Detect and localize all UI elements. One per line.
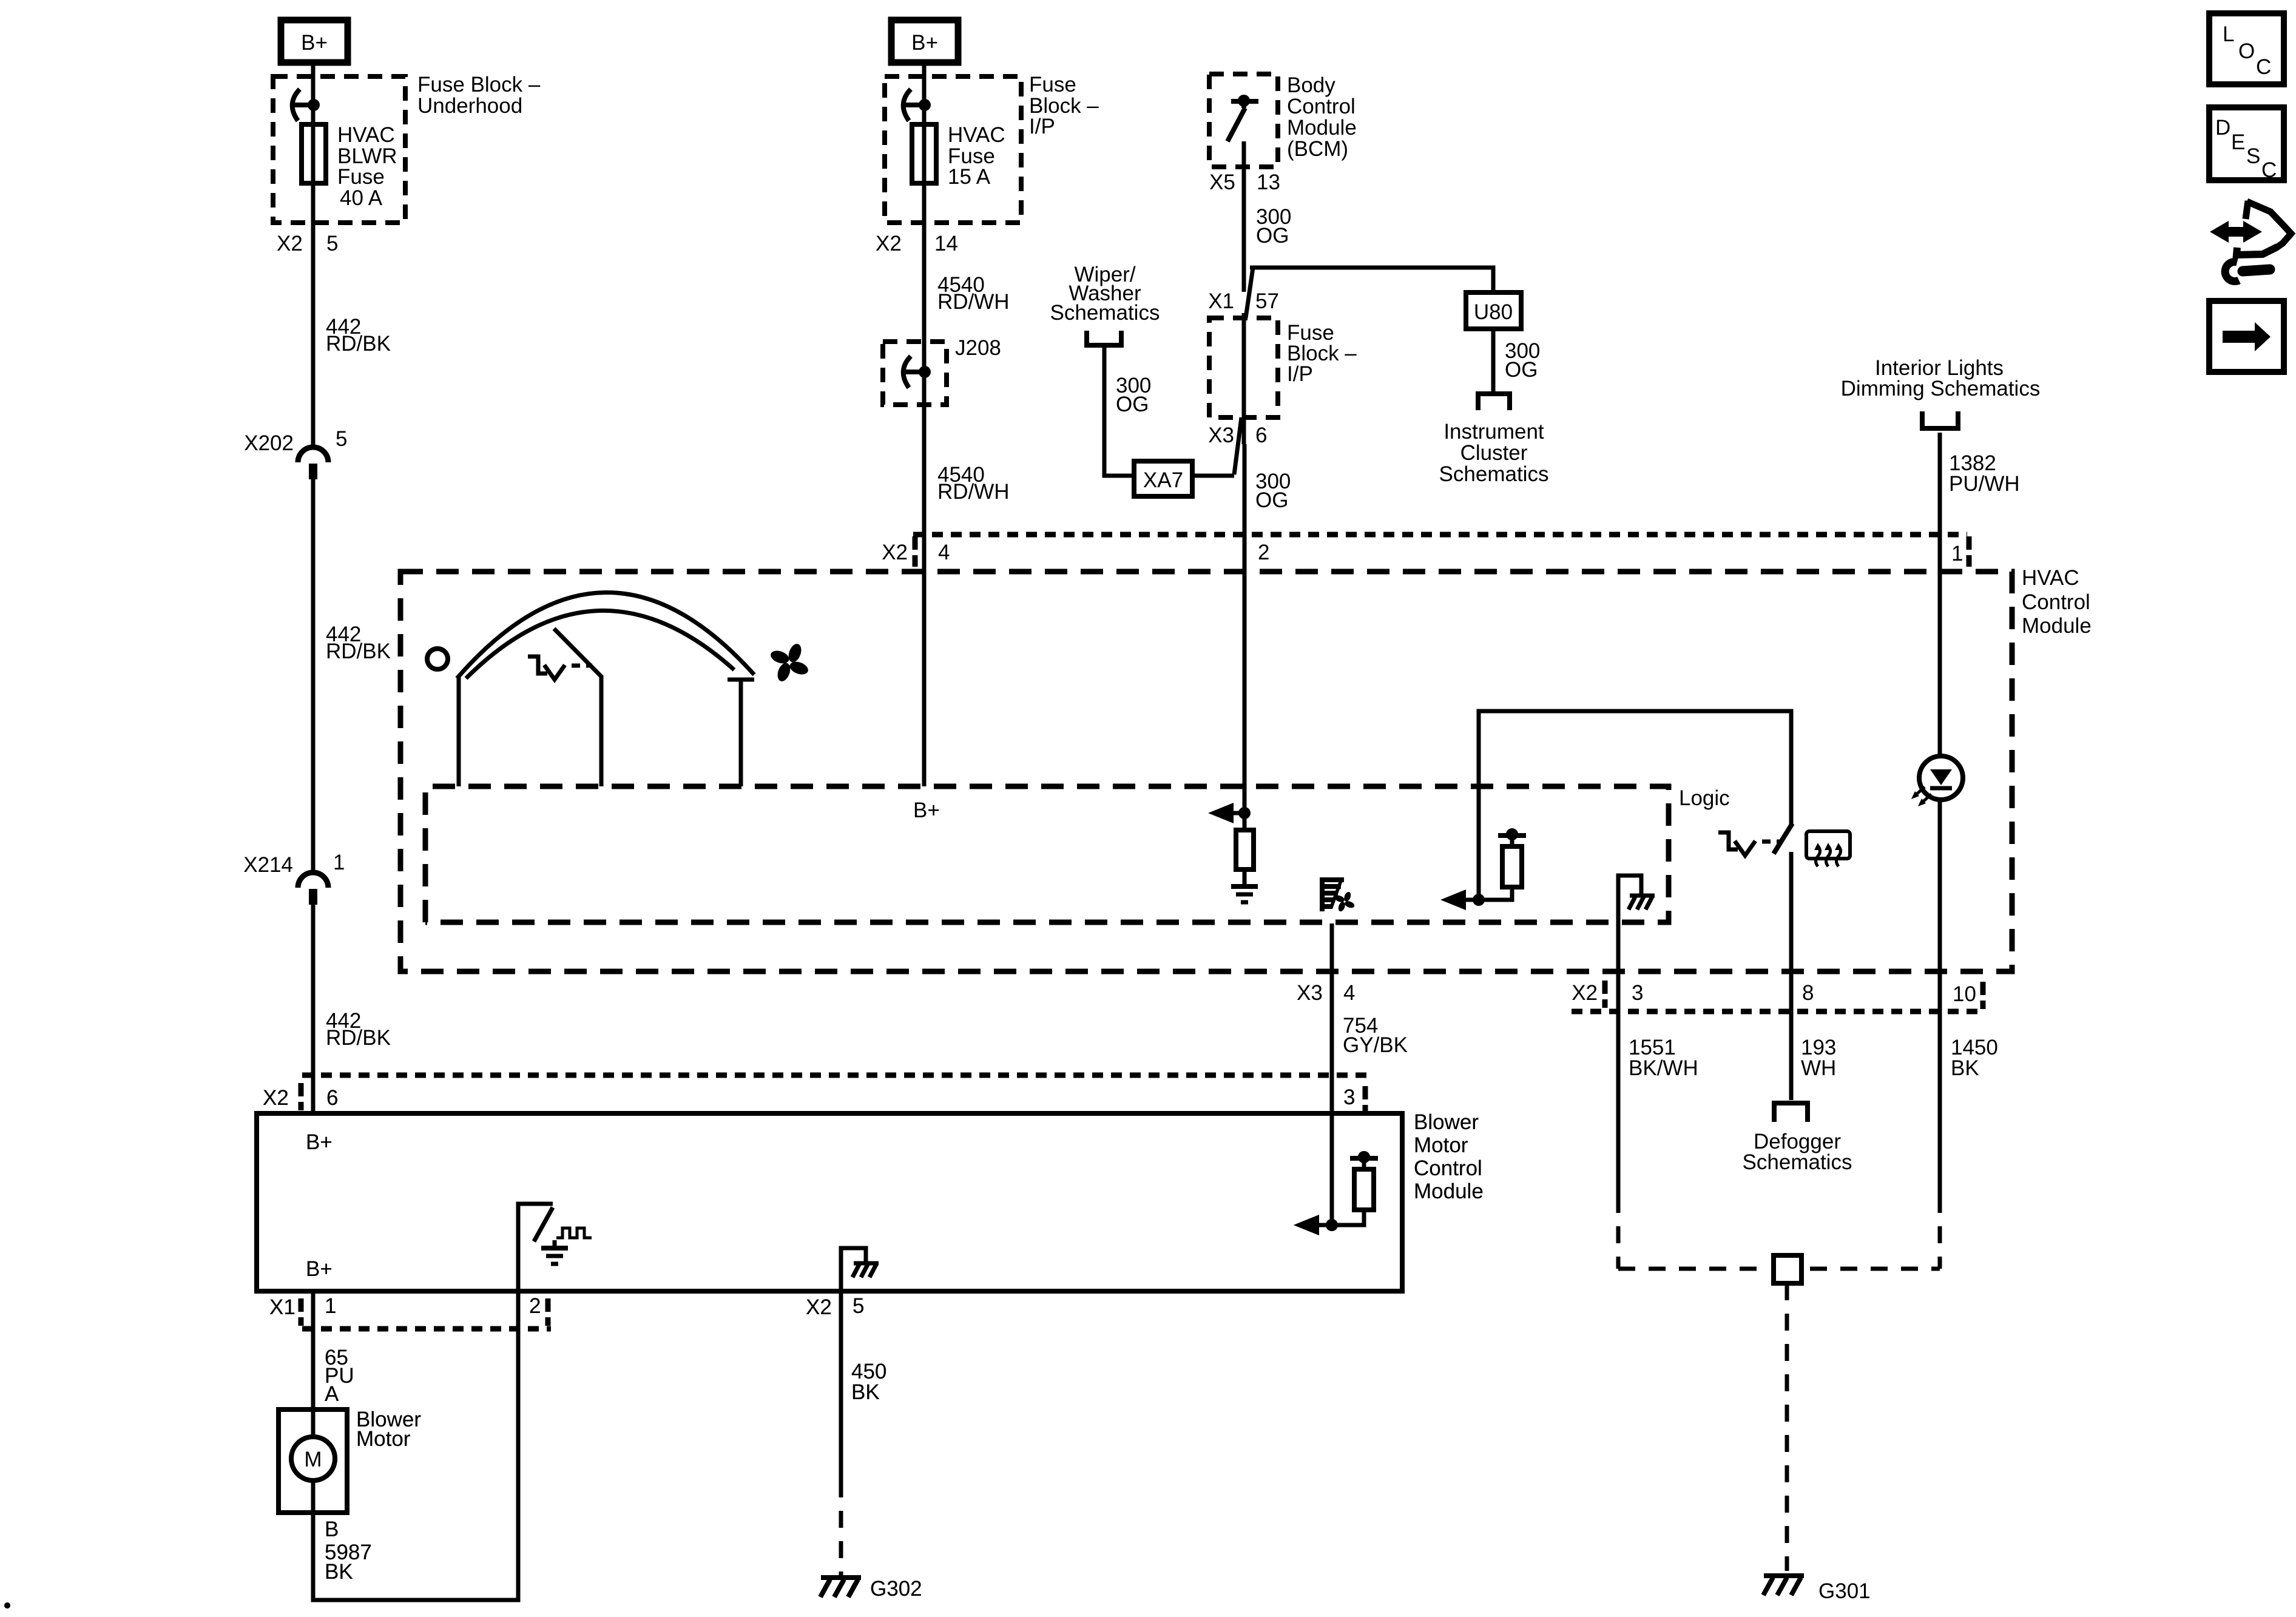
svg-text:10: 10 — [1953, 982, 1976, 1006]
svg-text:A: A — [325, 1382, 339, 1406]
svg-text:Instrument: Instrument — [1443, 420, 1544, 444]
svg-text:X202: X202 — [244, 431, 294, 455]
svg-text:X1: X1 — [269, 1295, 295, 1319]
svg-text:Control: Control — [1287, 95, 1356, 118]
svg-text:C: C — [2256, 55, 2271, 79]
svg-text:B+: B+ — [913, 798, 940, 822]
svg-text:B+: B+ — [301, 31, 328, 55]
svg-text:U80: U80 — [1474, 300, 1513, 324]
svg-text:E: E — [2231, 130, 2245, 154]
svg-text:15 A: 15 A — [948, 165, 991, 189]
svg-text:Logic: Logic — [1679, 786, 1730, 810]
svg-text:Module: Module — [2022, 614, 2092, 638]
svg-text:X2: X2 — [876, 232, 902, 255]
svg-text:Schematics: Schematics — [1743, 1150, 1852, 1174]
svg-text:XA7: XA7 — [1143, 468, 1183, 492]
svg-text:BK: BK — [1951, 1056, 1979, 1080]
svg-text:X2: X2 — [277, 232, 303, 255]
svg-text:40 A: 40 A — [340, 186, 383, 210]
svg-text:Control: Control — [1414, 1156, 1482, 1180]
svg-text:5: 5 — [853, 1294, 864, 1318]
svg-text:RD/BK: RD/BK — [326, 1026, 391, 1050]
svg-text:X2: X2 — [263, 1086, 289, 1110]
svg-text:3: 3 — [1632, 981, 1643, 1005]
svg-text:Dimming Schematics: Dimming Schematics — [1841, 377, 2041, 400]
svg-text:6: 6 — [326, 1086, 338, 1110]
svg-text:5: 5 — [336, 427, 347, 451]
svg-text:X3: X3 — [1208, 424, 1234, 447]
svg-text:Fuse: Fuse — [1029, 73, 1076, 96]
svg-text:GY/BK: GY/BK — [1343, 1033, 1408, 1057]
svg-text:Body: Body — [1287, 73, 1335, 97]
svg-text:BK/WH: BK/WH — [1629, 1056, 1698, 1080]
svg-text:Fuse: Fuse — [337, 165, 385, 189]
svg-text:D: D — [2215, 116, 2230, 140]
svg-text:PU/WH: PU/WH — [1949, 472, 2020, 496]
svg-text:BK: BK — [325, 1560, 353, 1584]
svg-text:Underhood: Underhood — [417, 94, 522, 118]
svg-text:I/P: I/P — [1029, 115, 1055, 138]
svg-text:1: 1 — [333, 851, 345, 874]
svg-text:B: B — [325, 1517, 339, 1541]
svg-text:Module: Module — [1414, 1180, 1484, 1203]
svg-text:Schematics: Schematics — [1050, 301, 1160, 325]
svg-text:OG: OG — [1256, 224, 1289, 248]
svg-text:X2: X2 — [882, 541, 908, 564]
svg-text:Fuse Block –: Fuse Block – — [417, 73, 541, 96]
svg-text:G302: G302 — [870, 1577, 922, 1601]
svg-text:BK: BK — [851, 1380, 880, 1404]
svg-text:RD/WH: RD/WH — [937, 290, 1010, 314]
svg-text:HVAC: HVAC — [2022, 566, 2079, 590]
svg-text:G301: G301 — [1818, 1579, 1871, 1603]
svg-text:C: C — [2261, 158, 2277, 182]
svg-text:X5: X5 — [1209, 170, 1235, 194]
svg-text:B+: B+ — [306, 1257, 333, 1281]
svg-text:X1: X1 — [1208, 289, 1234, 313]
svg-text:S: S — [2246, 144, 2260, 168]
svg-text:RD/WH: RD/WH — [937, 480, 1010, 504]
svg-text:3: 3 — [1343, 1085, 1355, 1109]
svg-text:Module: Module — [1287, 116, 1357, 140]
svg-text:6: 6 — [1255, 424, 1267, 447]
svg-text:L: L — [2223, 22, 2234, 46]
svg-text:Blower: Blower — [1414, 1110, 1479, 1134]
svg-text:2: 2 — [529, 1294, 541, 1318]
svg-text:HVAC: HVAC — [337, 123, 395, 147]
svg-text:4: 4 — [1343, 981, 1355, 1005]
svg-text:X3: X3 — [1297, 981, 1323, 1005]
svg-text:8: 8 — [1802, 981, 1814, 1005]
svg-text:X214: X214 — [243, 853, 293, 877]
svg-text:14: 14 — [934, 232, 958, 255]
svg-text:Motor: Motor — [356, 1427, 411, 1451]
svg-text:4: 4 — [938, 541, 950, 564]
svg-text:O: O — [2238, 39, 2255, 63]
svg-text:1: 1 — [325, 1294, 336, 1318]
svg-text:M: M — [304, 1448, 322, 1471]
svg-text:OG: OG — [1116, 393, 1149, 416]
svg-text:B+: B+ — [911, 31, 938, 55]
svg-text:RD/BK: RD/BK — [326, 640, 391, 663]
svg-text:J208: J208 — [955, 336, 1001, 360]
svg-text:5: 5 — [326, 232, 338, 255]
svg-text:B+: B+ — [306, 1130, 333, 1154]
svg-text:I/P: I/P — [1287, 362, 1313, 386]
svg-text:(BCM): (BCM) — [1287, 137, 1348, 161]
svg-text:RD/BK: RD/BK — [326, 332, 391, 356]
svg-text:HVAC: HVAC — [948, 123, 1005, 147]
svg-text:Schematics: Schematics — [1439, 462, 1549, 486]
svg-text:2: 2 — [1258, 541, 1269, 564]
svg-text:OG: OG — [1255, 488, 1288, 512]
svg-text:OG: OG — [1505, 358, 1538, 382]
svg-text:X2: X2 — [806, 1295, 832, 1319]
svg-text:WH: WH — [1801, 1056, 1836, 1080]
svg-text:Control: Control — [2022, 590, 2090, 614]
svg-text:Motor: Motor — [1414, 1133, 1468, 1157]
svg-text:X2: X2 — [1572, 981, 1598, 1005]
svg-text:57: 57 — [1255, 289, 1279, 313]
svg-text:1: 1 — [1951, 542, 1963, 565]
svg-text:Cluster: Cluster — [1460, 441, 1528, 465]
svg-text:13: 13 — [1257, 170, 1280, 194]
